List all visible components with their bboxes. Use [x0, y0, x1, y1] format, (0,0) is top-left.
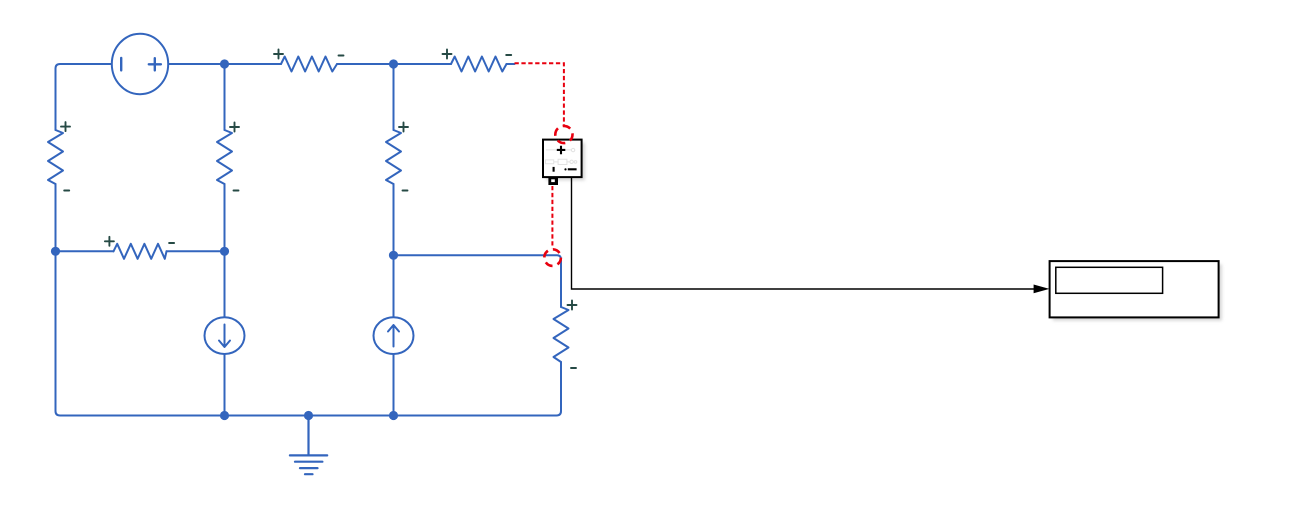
red dashed port circle (wire corner) [544, 249, 561, 266]
resistor R4 (middle horizontal) [114, 244, 167, 259]
resistor R1 (top, between node A and node B) [281, 57, 337, 72]
red dashed connection bottom: sensor - port to node E branch [551, 186, 553, 248]
wire: voltage source right to node A [169, 63, 225, 65]
label - R7 [403, 190, 408, 192]
sensor + mark [557, 146, 566, 155]
wire: R2 to red dashed start [507, 63, 515, 65]
node H [389, 411, 398, 420]
signal arrowhead [1034, 285, 1050, 294]
wire: current source I2 to bottom rail [393, 355, 395, 416]
red dashed port circle (sensor +) [555, 126, 572, 143]
label + R8 [568, 301, 577, 310]
node F [220, 411, 229, 420]
polarity labels [61, 50, 577, 369]
node D [220, 247, 229, 256]
wire: current source I1 to bottom rail [224, 355, 226, 416]
wire: node B to resistor R2 [394, 63, 452, 65]
voltage source V1 [112, 34, 168, 94]
wire: node A to resistor R1 [225, 63, 282, 65]
resistor R7 (column 3 vertical) [386, 130, 401, 184]
label + R6 [230, 123, 239, 132]
node G [304, 411, 313, 420]
signal wire: sensor output to display [572, 178, 1035, 290]
wire: R7 to current source I2 [393, 184, 395, 317]
node C [51, 247, 60, 256]
resistor R6 (column 2 vertical) [217, 130, 232, 184]
wire: R1 to node B [337, 63, 394, 65]
label - R2 [506, 54, 511, 56]
label - R5 [64, 190, 69, 192]
current source I1 (down arrow) [205, 317, 245, 354]
red dashed connection top: R2 end to sensor + port [515, 63, 564, 125]
label - R8 [571, 367, 576, 369]
wire: left rail below R5, bottom rail, right rail up to R8 [56, 184, 562, 416]
wire top-left: left rail top corner to voltage source [56, 64, 112, 130]
node B [389, 59, 398, 68]
wire: node E right toward sensor branch, corner down to R8 [394, 255, 562, 307]
wire: R6 to current source I1 [224, 184, 226, 317]
label - R6 [234, 190, 239, 192]
voltage sensor U1 [543, 140, 585, 185]
label - R4 [169, 242, 174, 244]
sensor - marks bottom [553, 167, 555, 172]
wire: node C to mid resistor R4 [56, 250, 114, 252]
node E [389, 251, 398, 260]
display block (Display) [1050, 261, 1222, 320]
resistor R8 (bottom right vertical) [554, 307, 569, 362]
ground [290, 416, 327, 475]
resistor R2 (top right) [451, 57, 507, 72]
label + R4 [105, 237, 114, 246]
wire: node A down to R6 [224, 64, 226, 130]
sensor icon: gray measurement chain top [546, 148, 577, 164]
current source I2 (up arrow) [374, 317, 414, 354]
sensor physical port (bottom left square) [548, 178, 558, 185]
wire: node B down to R7 [393, 64, 395, 130]
resistor R5 (left rail vertical) [48, 130, 63, 184]
wire: R4 to node D [167, 250, 225, 252]
label - R1 [339, 55, 344, 57]
label + R1 [274, 50, 283, 59]
label + R7 [399, 123, 408, 132]
label + R5 [61, 122, 70, 131]
label + R2 [443, 50, 452, 59]
node A [220, 59, 229, 68]
